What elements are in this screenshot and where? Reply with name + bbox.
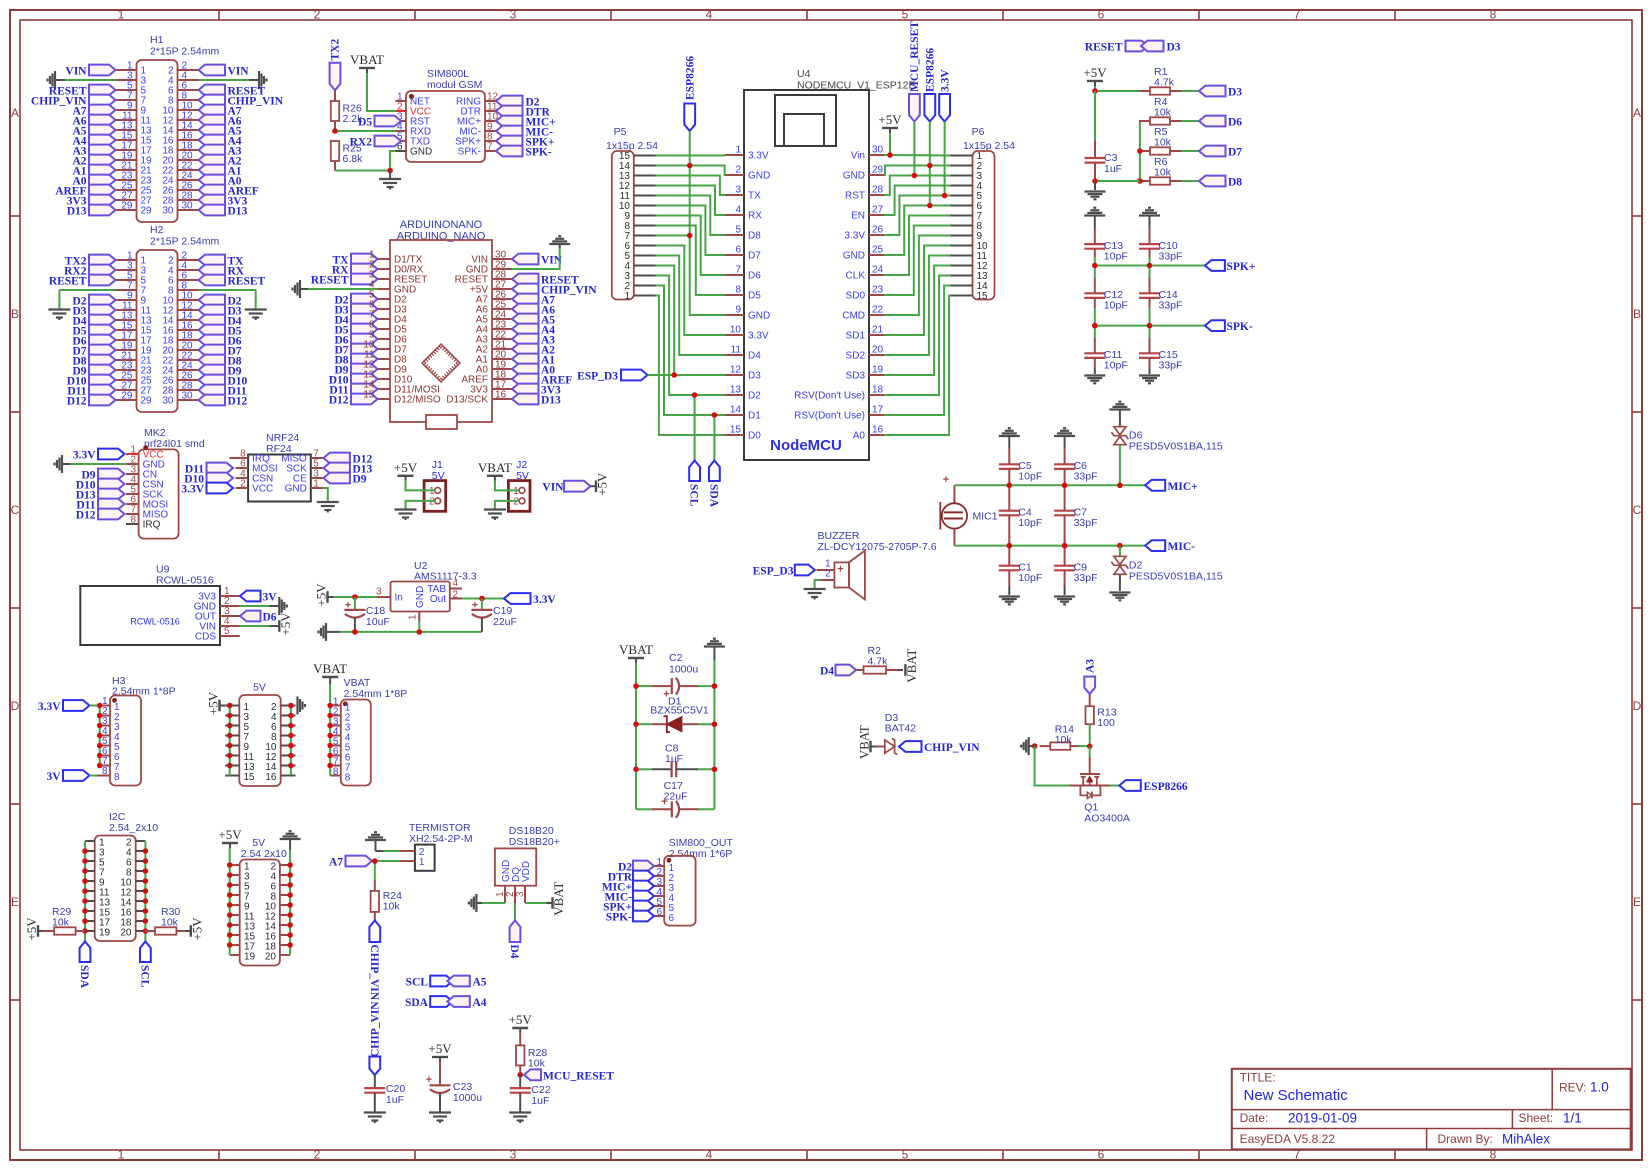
svg-text:CLK: CLK bbox=[846, 271, 866, 282]
capacitor C3 1uF bbox=[1085, 91, 1123, 181]
svg-text:REV:: REV: bbox=[1559, 1081, 1587, 1095]
net flag D12 at ARDUINO_NANO pin 15 bbox=[329, 394, 378, 407]
junction ESP_D3/D3 bbox=[671, 372, 677, 378]
net flag RX right of H2 bbox=[199, 265, 245, 278]
svg-text:+5V: +5V bbox=[428, 1041, 452, 1056]
net flag D13 right of H1 bbox=[199, 205, 248, 218]
svg-text:10k: 10k bbox=[52, 917, 70, 929]
svg-text:8: 8 bbox=[102, 766, 108, 777]
capacitor C4 10pF bbox=[999, 507, 1042, 530]
svg-text:29: 29 bbox=[141, 396, 153, 407]
svg-text:2: 2 bbox=[453, 590, 459, 601]
junction 2x10 right row7 bbox=[287, 922, 293, 928]
net flag D12 left of H2 bbox=[67, 395, 116, 408]
wire +5V to R1 bbox=[1095, 90, 1139, 92]
wire P5.13 to U4 pin3 bbox=[656, 176, 726, 196]
net flag A0 right of H1 bbox=[199, 175, 242, 188]
junction I2C right row5 bbox=[143, 878, 149, 884]
svg-text:33pF: 33pF bbox=[1074, 517, 1098, 529]
svg-text:1uF: 1uF bbox=[386, 1094, 404, 1106]
svg-text:7: 7 bbox=[487, 142, 493, 153]
connector J1 5V jumper bbox=[424, 459, 446, 511]
svg-text:SD1: SD1 bbox=[846, 331, 866, 342]
svg-text:IRQ: IRQ bbox=[143, 520, 161, 531]
power VBAT above C2 bbox=[619, 642, 653, 686]
svg-text:RCWL-0516: RCWL-0516 bbox=[156, 575, 214, 587]
diode D6 PESD5V0S1BA,115 bbox=[1111, 427, 1222, 453]
net flag RESET right of H1 bbox=[199, 85, 266, 98]
svg-text:GND: GND bbox=[843, 251, 865, 262]
junction 2x10 left row6 bbox=[227, 912, 233, 918]
junction I2C right row9 bbox=[143, 918, 149, 924]
svg-text:VBAT: VBAT bbox=[478, 460, 512, 475]
ground below C11 bbox=[1084, 376, 1105, 384]
svg-text:10pF: 10pF bbox=[1104, 300, 1128, 312]
svg-text:EN: EN bbox=[851, 211, 865, 222]
title block texts bbox=[1240, 1071, 1609, 1147]
power +5V above C23 bbox=[428, 1041, 452, 1085]
svg-text:+: + bbox=[943, 474, 949, 486]
junction at R26/R25 divider bbox=[332, 128, 338, 134]
junction +5V/C3 bbox=[1092, 88, 1098, 94]
leads of C6 group bbox=[1064, 448, 1066, 595]
wire P5.3 to U4 pin13 bbox=[656, 276, 726, 396]
svg-text:19: 19 bbox=[99, 927, 111, 938]
junction I2C left row5 bbox=[82, 878, 88, 884]
junction ESP8266/GND25 bbox=[927, 203, 933, 209]
net flag SCL below I2C bbox=[138, 942, 150, 988]
svg-text:10pF: 10pF bbox=[1104, 360, 1128, 372]
capacitor C18 10uF polarized bbox=[344, 597, 389, 632]
wire U4 pin16 to P6.15 bbox=[884, 296, 951, 436]
svg-text:29: 29 bbox=[872, 165, 884, 176]
svg-text:D12: D12 bbox=[329, 395, 349, 407]
svg-text:GND: GND bbox=[415, 586, 426, 608]
svg-text:33pF: 33pF bbox=[1074, 471, 1098, 483]
svg-text:8: 8 bbox=[735, 285, 741, 296]
net flag 3V3 right of H1 bbox=[199, 195, 248, 208]
ground above C6 bbox=[1054, 428, 1075, 448]
net flag RESET right of H2 bbox=[199, 275, 266, 288]
svg-text:C2: C2 bbox=[669, 652, 683, 664]
pin header 5V 2x8 bbox=[225, 682, 295, 787]
resistor R2 4.7k bbox=[856, 645, 903, 674]
svg-text:ESP8266: ESP8266 bbox=[1144, 781, 1188, 793]
net flag A3 left of H1 bbox=[72, 145, 115, 158]
net flag D13 left of H1 bbox=[67, 205, 116, 218]
svg-text:6: 6 bbox=[669, 913, 675, 924]
net flag D8 left of H2 bbox=[72, 355, 115, 368]
junction ESP8266/P5.7 bbox=[687, 233, 693, 239]
microphone MIC1 bbox=[940, 474, 997, 546]
wire P5.8 to U4 pin8 bbox=[656, 226, 726, 296]
svg-text:5: 5 bbox=[735, 225, 741, 236]
junction I2C left row2 bbox=[82, 848, 88, 854]
svg-text:RCWL-0516: RCWL-0516 bbox=[130, 617, 180, 627]
resistor R24 10k bbox=[371, 880, 403, 921]
svg-text:6: 6 bbox=[1098, 8, 1105, 22]
capacitor C11 10pF bbox=[1084, 349, 1127, 372]
net flag D9 at NRF24 pin3 bbox=[323, 473, 366, 486]
net flag MIC+ at SIM800L pin 10 bbox=[496, 116, 556, 129]
svg-text:4: 4 bbox=[735, 205, 741, 216]
net flag D11 left of H2 bbox=[67, 385, 115, 398]
svg-text:H2: H2 bbox=[150, 224, 164, 236]
svg-text:+5V: +5V bbox=[218, 827, 242, 842]
net flag A7 at ARDUINO_NANO pin 26 bbox=[512, 294, 555, 307]
wire U9 GND to ground bbox=[240, 605, 280, 607]
ARDUINO_NANO pins bbox=[378, 255, 513, 406]
svg-text:DS18B20+: DS18B20+ bbox=[509, 836, 560, 848]
buzzer ZL-DCY12075-2705P-7.6 bbox=[817, 530, 937, 600]
net flag 3.3V at MK2 VCC bbox=[73, 449, 125, 462]
net flag D2 left of H2 bbox=[72, 295, 115, 308]
svg-text:33pF: 33pF bbox=[1159, 360, 1183, 372]
junction MIC- C7 bbox=[1062, 543, 1068, 549]
wire U4 pin22 to P6.9 bbox=[884, 236, 951, 316]
svg-text:+5V: +5V bbox=[206, 691, 221, 715]
resistor R14 10k bbox=[1040, 724, 1090, 750]
net flag DTR at SIM800L pin 11 bbox=[496, 106, 550, 119]
junction D1 left bbox=[633, 721, 639, 727]
svg-text:30: 30 bbox=[162, 396, 174, 407]
power VBAT right of R2 bbox=[904, 649, 919, 683]
svg-text:PESD5V0S1BA,115: PESD5V0S1BA,115 bbox=[1129, 441, 1223, 453]
junction MIC+ D6 bbox=[1117, 483, 1123, 489]
svg-text:A4: A4 bbox=[473, 997, 487, 1009]
connector TERMISTOR XH2.54-2P-M bbox=[400, 822, 473, 871]
net flag D8 right of R6 bbox=[1199, 176, 1242, 189]
ground above C5 bbox=[999, 428, 1020, 448]
wire SDA drop from U4 D1 bbox=[713, 415, 715, 461]
wire ESP_D3 to U4 pin12 bbox=[648, 374, 675, 376]
net flag A3 above R13 bbox=[1084, 659, 1096, 694]
ground arrow left of U2 rail bbox=[319, 623, 341, 641]
svg-text:4: 4 bbox=[706, 8, 713, 22]
junction R28/C22/MCU_RESET bbox=[517, 1072, 523, 1078]
svg-text:SPK-: SPK- bbox=[606, 912, 632, 924]
capacitor C9 33pF bbox=[1054, 562, 1097, 585]
power +5V left of U2 bbox=[314, 583, 379, 607]
svg-text:4.7k: 4.7k bbox=[1154, 77, 1175, 89]
svg-text:SCL: SCL bbox=[406, 977, 429, 989]
pin header VBAT 2.54mm 1*8P bbox=[330, 677, 407, 786]
net flag A1 left of H1 bbox=[72, 165, 115, 178]
svg-text:RSV(Don't Use): RSV(Don't Use) bbox=[794, 411, 865, 422]
wire P5.11 to U4 pin5 bbox=[656, 196, 726, 236]
junction C2 right bbox=[712, 683, 718, 689]
svg-text:28: 28 bbox=[872, 185, 884, 196]
net flag D8 at ARDUINO_NANO pin 11 bbox=[334, 354, 377, 367]
junction 2x10 left row1 bbox=[227, 862, 233, 868]
svg-text:20: 20 bbox=[120, 927, 132, 938]
junction 2x10 right row4 bbox=[287, 892, 293, 898]
svg-text:D3: D3 bbox=[1228, 87, 1242, 99]
module U9 RCWL-0516 bbox=[80, 564, 239, 646]
svg-text:Out: Out bbox=[430, 594, 446, 605]
junction 5V header left row5 bbox=[227, 743, 233, 749]
net flag D5 at ARDUINO_NANO pin 8 bbox=[334, 324, 377, 337]
svg-text:19: 19 bbox=[244, 951, 256, 962]
svg-text:CDS: CDS bbox=[195, 632, 216, 643]
svg-text:6.8k: 6.8k bbox=[343, 153, 364, 165]
svg-text:VIN: VIN bbox=[228, 66, 250, 78]
svg-text:22uF: 22uF bbox=[493, 616, 517, 628]
svg-text:33pF: 33pF bbox=[1074, 572, 1098, 584]
net flag RESET at ARDUINO_NANO pin 3 bbox=[311, 274, 378, 287]
svg-text:18: 18 bbox=[872, 385, 884, 396]
resistor R26 2.2k bbox=[331, 90, 363, 131]
svg-text:+5V: +5V bbox=[314, 583, 329, 607]
U4 antenna glyph bbox=[775, 95, 836, 146]
svg-text:1/1: 1/1 bbox=[1563, 1111, 1582, 1126]
wire SCL rail I2C right bbox=[144, 841, 146, 942]
wire P5.1 to U4 pin15 bbox=[656, 296, 726, 436]
net flag D12 at MK2 pin7 bbox=[76, 509, 125, 522]
junction I2C right row8 bbox=[143, 908, 149, 914]
buzzer pin2 wire to ground bbox=[815, 580, 820, 589]
svg-text:SD0: SD0 bbox=[846, 291, 866, 302]
net flag SDA below I2C bbox=[78, 942, 90, 989]
svg-text:Date:: Date: bbox=[1240, 1111, 1269, 1125]
H1 pins and pin numbers bbox=[116, 61, 199, 217]
svg-text:+5V: +5V bbox=[509, 1012, 533, 1027]
junction 5V header right row6 bbox=[288, 753, 294, 759]
net flag RESET top right bbox=[1085, 41, 1148, 54]
svg-text:BAT42: BAT42 bbox=[885, 723, 916, 735]
resistor R30 10k bbox=[145, 906, 186, 935]
svg-text:29: 29 bbox=[121, 391, 133, 402]
net flag MIC+ at SIM800_OUT pin3 bbox=[602, 881, 654, 894]
net flag SPK- at SIM800L pin 7 bbox=[496, 146, 552, 159]
svg-text:B: B bbox=[1633, 307, 1641, 321]
junction C8 left bbox=[633, 767, 639, 773]
svg-text:Drawn By:: Drawn By: bbox=[1438, 1132, 1493, 1146]
capacitor C8 1uF bbox=[636, 743, 714, 778]
net flag A3 at ARDUINO_NANO pin 22 bbox=[512, 334, 555, 347]
svg-text:GND: GND bbox=[843, 171, 865, 182]
net flag MIC+ bbox=[1145, 480, 1197, 493]
svg-text:10k: 10k bbox=[1154, 137, 1172, 149]
wire 3.3V vertical bbox=[944, 122, 946, 196]
net flag D6 right of H2 bbox=[199, 335, 242, 348]
svg-text:GND: GND bbox=[748, 171, 770, 182]
net flag D10 left of H2 bbox=[67, 375, 116, 388]
junction 5V header left row6 bbox=[227, 753, 233, 759]
svg-text:10k: 10k bbox=[161, 917, 179, 929]
svg-text:RESET: RESET bbox=[311, 275, 349, 287]
svg-text:12: 12 bbox=[730, 365, 742, 376]
net flag A4 right of H1 bbox=[199, 135, 242, 148]
ground above 5V 2x10 right bbox=[280, 831, 301, 850]
wire ESP8266 vertical to U4 GND pin9 bbox=[690, 131, 725, 315]
svg-text:3.3V: 3.3V bbox=[748, 331, 769, 342]
junction at SIM800L GND net bbox=[387, 168, 393, 174]
svg-text:25: 25 bbox=[872, 245, 884, 256]
ground below C9 bbox=[1054, 597, 1075, 605]
svg-text:5: 5 bbox=[902, 1148, 909, 1162]
svg-text:1000u: 1000u bbox=[669, 664, 698, 676]
svg-text:RX: RX bbox=[748, 211, 762, 222]
net flag A2 left of H1 bbox=[72, 155, 115, 168]
svg-text:30: 30 bbox=[872, 145, 884, 156]
svg-text:24: 24 bbox=[872, 265, 884, 276]
svg-text:1: 1 bbox=[429, 486, 435, 497]
svg-text:+: + bbox=[426, 1074, 432, 1086]
resistor R6 10k bbox=[1139, 156, 1182, 185]
net flag A5 right of H1 bbox=[199, 125, 242, 138]
junction H3 pin7 bbox=[97, 763, 103, 769]
wire MK2 GND to ground bbox=[62, 463, 126, 465]
net flag ESP8266 above P5 wires bbox=[684, 56, 696, 131]
junction A7/R24 bbox=[372, 858, 378, 864]
svg-text:+5V: +5V bbox=[878, 112, 902, 127]
svg-text:6: 6 bbox=[735, 245, 741, 256]
junction R14 left bbox=[1032, 743, 1038, 749]
net flag CHIP_VIN below R24 bbox=[368, 921, 380, 1001]
svg-text:10k: 10k bbox=[528, 1058, 546, 1070]
svg-text:BZX55C5V1: BZX55C5V1 bbox=[650, 704, 709, 716]
net flag D7 right of R5 bbox=[1199, 146, 1242, 159]
wire MIC- to D2 bbox=[1119, 546, 1121, 557]
junction I2C right row2 bbox=[143, 848, 149, 854]
net flag D11 at MK2 pin6 bbox=[76, 499, 124, 512]
svg-text:1: 1 bbox=[118, 1148, 125, 1162]
svg-text:D12: D12 bbox=[228, 396, 248, 408]
svg-text:SCL: SCL bbox=[138, 965, 150, 988]
net flag D11 at ARDUINO_NANO pin 14 bbox=[329, 384, 377, 397]
junction R5 left bbox=[1137, 148, 1143, 154]
junction C8 right bbox=[712, 767, 718, 773]
junction 5V header left row1 bbox=[227, 703, 233, 709]
svg-text:10k: 10k bbox=[1154, 107, 1172, 119]
svg-text:2: 2 bbox=[735, 165, 741, 176]
net flag A6 right of H1 bbox=[199, 115, 242, 128]
svg-text:U4: U4 bbox=[797, 68, 811, 80]
svg-text:ARDUINONANO: ARDUINONANO bbox=[400, 219, 483, 231]
wire MCU_RESET to RST net bbox=[913, 122, 915, 176]
net flag RESET left of H2 bbox=[49, 275, 116, 288]
power +5V right of R30 bbox=[186, 917, 204, 941]
ground above C13 bbox=[1084, 208, 1105, 228]
junction I2C left row9 bbox=[82, 918, 88, 924]
wire R1 to D3 bbox=[1182, 90, 1200, 92]
svg-text:10pF: 10pF bbox=[1018, 471, 1042, 483]
leads of C13 chain bbox=[1094, 228, 1096, 374]
svg-text:D12: D12 bbox=[76, 510, 96, 522]
net flag 3V at U9 3V3 bbox=[240, 591, 277, 604]
svg-text:D6: D6 bbox=[748, 271, 761, 282]
net flag SDA below U4 bbox=[707, 461, 719, 508]
svg-text:D5: D5 bbox=[748, 291, 761, 302]
wire U4 pin27 to P6.4 bbox=[884, 186, 951, 216]
ground above C10 bbox=[1139, 208, 1160, 228]
junction VBAT header pin7 bbox=[327, 763, 333, 769]
ground arrow at MK2 GND bbox=[55, 455, 63, 473]
svg-text:+: + bbox=[837, 564, 843, 576]
pin header H3 2.54mm 1*8P bbox=[98, 675, 176, 786]
svg-text:10: 10 bbox=[730, 325, 742, 336]
junction ESP8266/P5.14 bbox=[687, 163, 693, 169]
svg-text:GND: GND bbox=[285, 484, 307, 495]
svg-text:nrf24l01 smd: nrf24l01 smd bbox=[144, 438, 205, 450]
net flag CHIP_VIN at D3 bbox=[899, 741, 980, 754]
svg-text:CHIP_VIN: CHIP_VIN bbox=[370, 1001, 382, 1057]
junction MIC+ C5 bbox=[1007, 483, 1013, 489]
junction I2C left row6 bbox=[82, 888, 88, 894]
net flag D12 at NRF24 pin7 bbox=[323, 453, 372, 466]
wire U9 VIN to +5V bbox=[240, 612, 293, 636]
svg-text:6: 6 bbox=[656, 907, 662, 918]
ground arrow at DS18B20 GND bbox=[469, 894, 505, 912]
capacitor C17 22uF polarized bbox=[636, 780, 714, 818]
wire U2 Out to 3.3V bbox=[462, 598, 504, 600]
connector H1 2*15P 2.54mm bbox=[137, 34, 220, 222]
svg-text:8: 8 bbox=[333, 766, 339, 777]
ground arrow left of R14 bbox=[1021, 737, 1034, 755]
H1 ground wire right bbox=[199, 79, 260, 81]
net flag VIN left of H1 bbox=[65, 65, 115, 78]
svg-text:D1: D1 bbox=[748, 411, 761, 422]
net flag A4 at ARDUINO_NANO pin 23 bbox=[512, 324, 555, 337]
diode D2 PESD5V0S1BA,115 bbox=[1111, 556, 1222, 582]
right rail GND bbox=[713, 686, 715, 809]
net flag D6 left of H2 bbox=[72, 335, 115, 348]
svg-text:16: 16 bbox=[265, 772, 277, 783]
junction 2x10 left row4 bbox=[227, 892, 233, 898]
svg-text:D6: D6 bbox=[1228, 117, 1242, 129]
svg-text:3.3V: 3.3V bbox=[939, 69, 951, 92]
wire U4 pin24 to P6.7 bbox=[884, 216, 951, 276]
capacitor C7 33pF bbox=[1054, 507, 1097, 530]
junction 5V header right row4 bbox=[288, 733, 294, 739]
junction 2x10 right row1 bbox=[287, 862, 293, 868]
svg-text:2*15P 2.54mm: 2*15P 2.54mm bbox=[150, 236, 220, 248]
wire P5.10 to U4 pin6 bbox=[656, 206, 726, 256]
svg-text:30: 30 bbox=[182, 391, 194, 402]
junction ESP8266/GND29 bbox=[927, 163, 933, 169]
capacitor C22 1uF bbox=[510, 1075, 551, 1113]
net flag SPK+ at SIM800_OUT pin5 bbox=[603, 901, 654, 914]
svg-text:PESD5V0S1BA,115: PESD5V0S1BA,115 bbox=[1129, 570, 1223, 582]
net flag D3 left of H2 bbox=[72, 305, 115, 318]
svg-text:11: 11 bbox=[731, 345, 742, 356]
net flag RX2 left of H2 bbox=[64, 265, 115, 278]
junction 2x10 right row3 bbox=[287, 882, 293, 888]
svg-text:3: 3 bbox=[515, 891, 526, 897]
svg-text:30: 30 bbox=[182, 201, 194, 212]
power +5V above C3 bbox=[1083, 65, 1107, 91]
svg-text:D3: D3 bbox=[748, 371, 761, 382]
svg-text:1: 1 bbox=[513, 486, 519, 497]
svg-text:1: 1 bbox=[624, 291, 630, 302]
net flag A6 left of H1 bbox=[72, 115, 115, 128]
wire 3.3V rail H3 bbox=[90, 705, 100, 707]
net flag D10 at NRF24 pin4 bbox=[184, 473, 233, 486]
wire R4/R5/R6 common vertical bbox=[1139, 121, 1141, 181]
power +5V at U4 Vin bbox=[878, 112, 902, 155]
net flag D3 right of H2 bbox=[199, 305, 242, 318]
ground below C23 bbox=[429, 1113, 451, 1124]
svg-text:15: 15 bbox=[363, 390, 375, 401]
capacitor C13 10pF bbox=[1084, 240, 1127, 263]
connector H2 2*15P 2.54mm bbox=[137, 224, 220, 412]
svg-text:+5V: +5V bbox=[278, 612, 293, 636]
svg-text:+5V: +5V bbox=[24, 917, 39, 941]
net flag RX at ARDUINO_NANO pin 2 bbox=[332, 264, 378, 277]
net flag A7 at TERMISTOR pin1 bbox=[329, 856, 372, 869]
svg-text:VBAT: VBAT bbox=[551, 882, 566, 916]
